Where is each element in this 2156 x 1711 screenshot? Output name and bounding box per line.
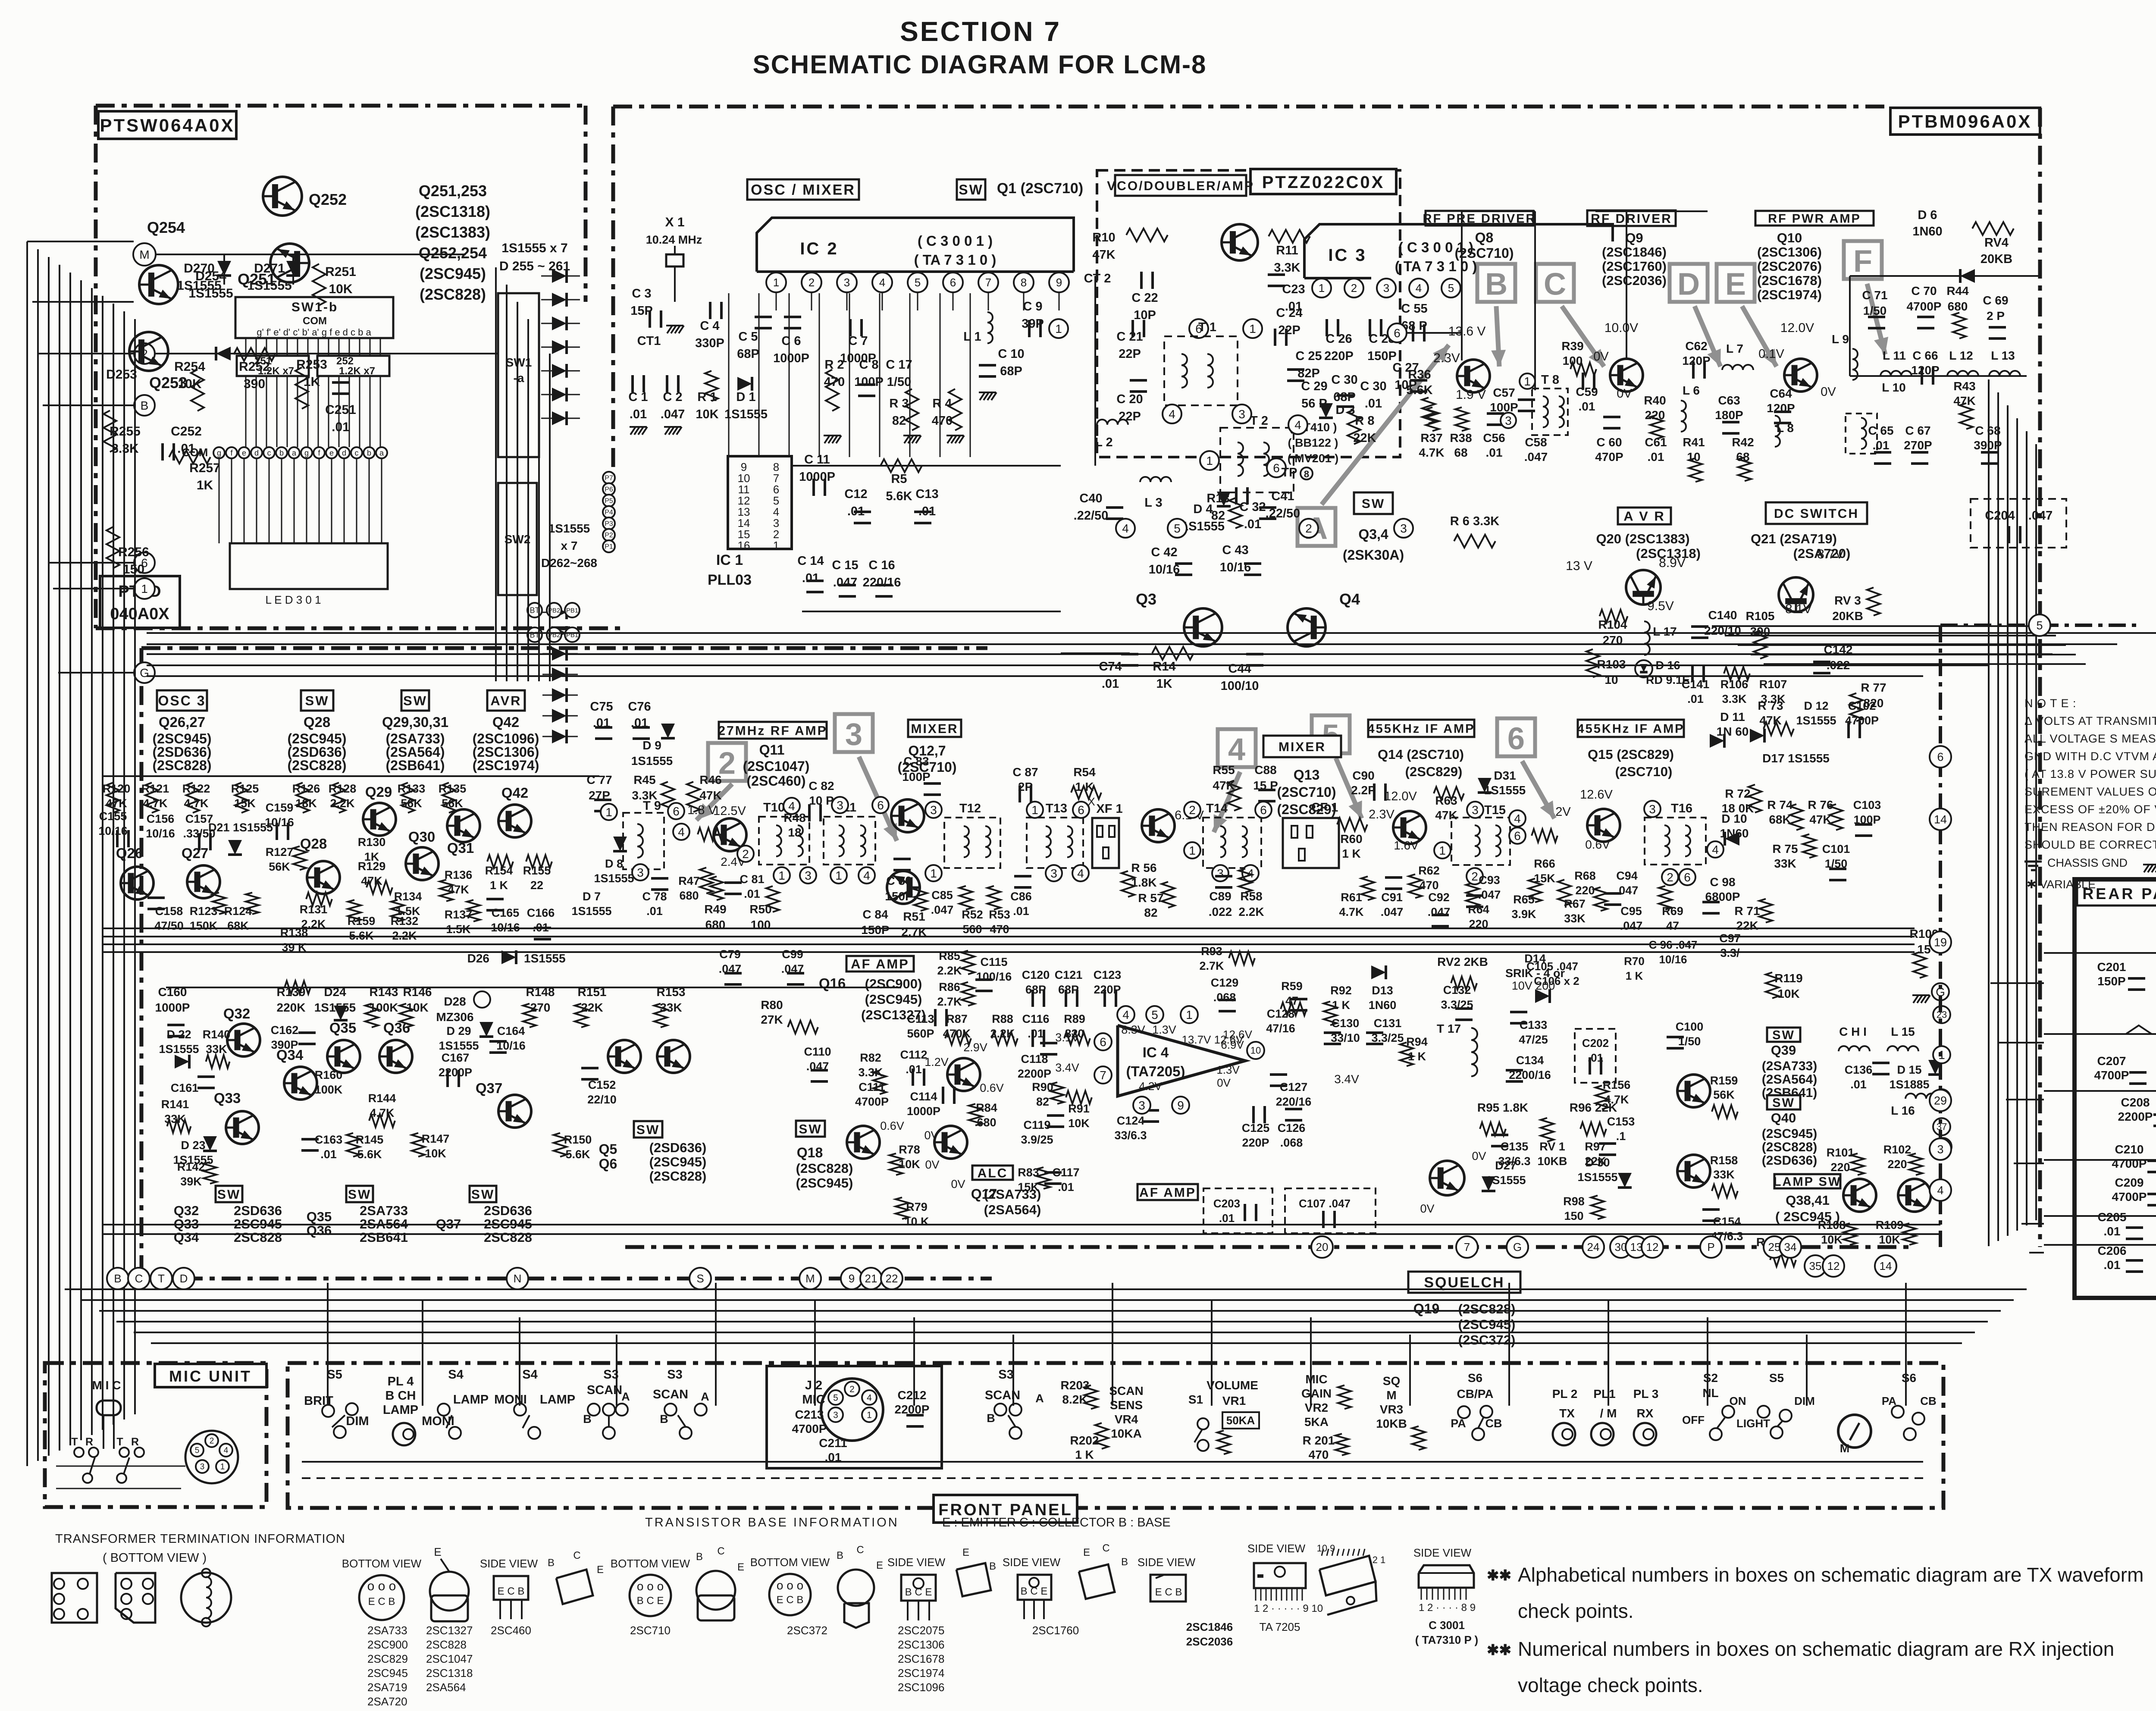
svg-text:C 66: C 66 bbox=[1912, 349, 1938, 362]
svg-text:( C 3 0 0 1 ): ( C 3 0 0 1 ) bbox=[918, 233, 993, 249]
svg-text:.01: .01 bbox=[1013, 905, 1029, 918]
svg-text:Q11: Q11 bbox=[759, 742, 785, 758]
svg-text:E: E bbox=[434, 1545, 441, 1558]
svg-text:R36: R36 bbox=[1408, 368, 1431, 382]
svg-text:5.6K: 5.6K bbox=[1406, 383, 1432, 397]
svg-text:T 8: T 8 bbox=[1541, 373, 1559, 387]
svg-text:e: e bbox=[242, 448, 246, 457]
transistor Q5 bbox=[608, 1040, 641, 1073]
svg-text:B C E: B C E bbox=[637, 1595, 664, 1607]
svg-text:R83: R83 bbox=[1018, 1166, 1039, 1179]
svg-text:C208: C208 bbox=[2121, 1096, 2150, 1109]
svg-text:R129: R129 bbox=[358, 860, 386, 873]
module border PTSW064A0X left bbox=[94, 106, 98, 628]
svg-text:E : EMITTER C : COLLECTOR: E : EMITTER C : COLLECTOR B : BASE bbox=[942, 1516, 1171, 1529]
svg-text:2SC460: 2SC460 bbox=[491, 1624, 531, 1637]
svg-text:Q10: Q10 bbox=[1777, 230, 1802, 245]
svg-text:C165: C165 bbox=[492, 906, 520, 919]
svg-text:D: D bbox=[1677, 267, 1700, 301]
svg-text:(2SC1974): (2SC1974) bbox=[473, 758, 539, 773]
svg-text:1000P: 1000P bbox=[907, 1105, 940, 1118]
transistor Q41 bbox=[1898, 1179, 1931, 1212]
mic switch pivots bbox=[83, 1473, 92, 1483]
svg-text:R40: R40 bbox=[1644, 394, 1666, 407]
svg-text:18K: 18K bbox=[295, 797, 317, 810]
transistor Q27 bbox=[187, 865, 220, 898]
svg-text:C 67: C 67 bbox=[1905, 424, 1930, 437]
svg-text:L 2: L 2 bbox=[1095, 436, 1112, 449]
svg-text:1N 60: 1N 60 bbox=[1717, 725, 1749, 738]
svg-text:47K: 47K bbox=[1759, 714, 1781, 727]
svg-text:G: G bbox=[1513, 1241, 1522, 1253]
svg-text:2: 2 bbox=[849, 1384, 855, 1394]
svg-text:2SD636: 2SD636 bbox=[484, 1203, 532, 1218]
IC1 box bbox=[728, 456, 792, 549]
svg-text:1.2K x7: 1.2K x7 bbox=[258, 365, 294, 377]
lamp PL2 bbox=[1553, 1423, 1575, 1445]
svg-text:S5: S5 bbox=[327, 1368, 342, 1382]
svg-text:D26: D26 bbox=[467, 952, 489, 965]
svg-text:R122: R122 bbox=[182, 782, 210, 795]
svg-text:SCHEMATIC DIAGRAM FOR LCM-8: SCHEMATIC DIAGRAM FOR LCM-8 bbox=[753, 50, 1207, 79]
svg-text:R158: R158 bbox=[1710, 1154, 1738, 1167]
svg-text:Q38,41: Q38,41 bbox=[1786, 1193, 1830, 1208]
svg-text:Q42: Q42 bbox=[501, 785, 528, 801]
svg-text:D31: D31 bbox=[1494, 769, 1516, 782]
svg-text:R 76: R 76 bbox=[1808, 798, 1833, 812]
legend transformer icon 2 bbox=[116, 1573, 155, 1623]
module label PTSW064A0X bbox=[98, 111, 236, 139]
svg-text:Q28: Q28 bbox=[304, 714, 330, 730]
svg-text:1S1555: 1S1555 bbox=[548, 522, 590, 535]
svg-text:check points.: check points. bbox=[1518, 1600, 1633, 1622]
svg-text:-a: -a bbox=[514, 371, 524, 385]
svg-text:COM: COM bbox=[303, 315, 327, 327]
svg-text:C131: C131 bbox=[1374, 1017, 1402, 1030]
svg-text:2.2K: 2.2K bbox=[330, 797, 355, 810]
svg-text:2SD636: 2SD636 bbox=[234, 1203, 282, 1218]
svg-text:RV 3: RV 3 bbox=[1834, 594, 1861, 607]
svg-text:R47: R47 bbox=[678, 874, 700, 887]
svg-text:C112: C112 bbox=[900, 1048, 927, 1061]
svg-text:1 K: 1 K bbox=[1075, 1448, 1094, 1461]
crystal filter XF1 bbox=[1092, 818, 1119, 868]
svg-text:ALC: ALC bbox=[978, 1166, 1008, 1180]
transistor Q31 bbox=[447, 809, 480, 842]
svg-text:1.3V: 1.3V bbox=[1152, 1023, 1176, 1036]
svg-text:470: 470 bbox=[1309, 1448, 1329, 1461]
svg-text:D13: D13 bbox=[1372, 984, 1393, 997]
transistor Q12a bbox=[891, 799, 924, 832]
svg-text:6: 6 bbox=[1078, 803, 1084, 817]
svg-text:0V: 0V bbox=[1821, 385, 1836, 399]
pin 6 T2 bbox=[1267, 458, 1286, 477]
IC2 body bbox=[757, 218, 1074, 272]
transistor Q42b bbox=[498, 805, 531, 837]
note chassis gnd symbol bbox=[2024, 861, 2042, 863]
svg-text:x 7: x 7 bbox=[561, 539, 578, 552]
block label VCO/DOUBLER/AMP bbox=[1115, 175, 1246, 196]
svg-text:1: 1 bbox=[1319, 282, 1325, 295]
diode array D255-261 bbox=[552, 269, 567, 283]
svg-text:o o o: o o o bbox=[777, 1579, 803, 1592]
svg-text:L 12: L 12 bbox=[1949, 349, 1973, 362]
svg-text:.01: .01 bbox=[1244, 517, 1261, 531]
svg-text:220/16: 220/16 bbox=[863, 576, 901, 589]
module border PTLD040A0X bottom bbox=[141, 646, 987, 650]
svg-text:100P: 100P bbox=[1490, 401, 1518, 414]
rear panel wires bbox=[2044, 952, 2156, 954]
capacitor C252 bbox=[161, 443, 164, 461]
svg-text:C 65: C 65 bbox=[1868, 424, 1893, 437]
svg-text:C76: C76 bbox=[628, 700, 651, 714]
diode D254 bbox=[216, 347, 231, 360]
mic symbol bbox=[97, 1401, 121, 1415]
svg-text:.01: .01 bbox=[802, 571, 819, 585]
connector pin 22 bottom bus bbox=[881, 1268, 903, 1289]
svg-text:680: 680 bbox=[705, 918, 726, 931]
resistor R256 bbox=[107, 527, 119, 568]
svg-text:R103: R103 bbox=[1597, 658, 1626, 671]
svg-text:S1: S1 bbox=[1188, 1393, 1203, 1406]
svg-text:56K: 56K bbox=[442, 797, 463, 810]
svg-text:B CH: B CH bbox=[385, 1389, 416, 1403]
svg-text:15K: 15K bbox=[1534, 872, 1555, 885]
svg-text:✱✱: ✱✱ bbox=[1487, 1567, 1511, 1584]
SW2 box bbox=[498, 483, 537, 595]
svg-text:8.7V: 8.7V bbox=[1817, 547, 1844, 561]
svg-text:1: 1 bbox=[835, 869, 842, 882]
svg-text:g: g bbox=[217, 448, 221, 457]
svg-text:3: 3 bbox=[1217, 867, 1224, 880]
svg-text:N O T E :: N O T E : bbox=[2024, 697, 2077, 710]
checkpoint E bbox=[1717, 264, 1755, 302]
svg-text:.01: .01 bbox=[1873, 439, 1890, 452]
svg-text:.01: .01 bbox=[1687, 693, 1704, 705]
svg-text:1: 1 bbox=[773, 539, 779, 552]
svg-text:R 75: R 75 bbox=[1772, 842, 1798, 855]
svg-text:Q29,30,31: Q29,30,31 bbox=[382, 714, 448, 730]
pin G bbox=[134, 662, 155, 683]
svg-text:B: B bbox=[660, 1413, 668, 1426]
svg-text:C 71: C 71 bbox=[1862, 288, 1887, 302]
svg-text:6: 6 bbox=[1100, 1035, 1106, 1049]
svg-text:1: 1 bbox=[1524, 375, 1531, 388]
svg-text:C136: C136 bbox=[1845, 1063, 1873, 1076]
svg-text:100: 100 bbox=[751, 918, 771, 931]
mid horizontal bus band above lower-left block bbox=[147, 632, 2156, 634]
note pcb gnd symbol bbox=[2144, 865, 2149, 872]
svg-text:8: 8 bbox=[1304, 469, 1309, 479]
switch S1 bbox=[1197, 1418, 1209, 1429]
svg-text:S4: S4 bbox=[522, 1368, 537, 1382]
svg-text:R95 1.8K: R95 1.8K bbox=[1477, 1101, 1528, 1114]
svg-text:R61: R61 bbox=[1341, 891, 1362, 904]
svg-text:SW: SW bbox=[217, 1188, 241, 1202]
svg-text:21: 21 bbox=[865, 1272, 877, 1285]
connector J2 MIC box bbox=[767, 1366, 942, 1468]
pin 3 vco bbox=[1394, 519, 1413, 538]
svg-text:OFF: OFF bbox=[1682, 1413, 1705, 1426]
svg-text:5: 5 bbox=[2036, 619, 2043, 632]
svg-text:50KA: 50KA bbox=[1226, 1414, 1255, 1427]
svg-text:68: 68 bbox=[1454, 446, 1467, 459]
module label PTBM096A0X bbox=[1890, 108, 2040, 135]
svg-text:68P: 68P bbox=[1000, 364, 1022, 378]
svg-text:4: 4 bbox=[224, 1446, 229, 1455]
svg-text:T 9: T 9 bbox=[643, 799, 661, 813]
svg-text:82: 82 bbox=[892, 414, 906, 428]
svg-text:47/25: 47/25 bbox=[1519, 1033, 1548, 1046]
svg-text:220P: 220P bbox=[1324, 349, 1354, 363]
svg-text:E: E bbox=[1725, 267, 1746, 301]
svg-text:C 6: C 6 bbox=[781, 334, 801, 348]
svg-text:BOTTOM VIEW: BOTTOM VIEW bbox=[611, 1557, 690, 1570]
pot VR2 bbox=[1338, 1385, 1351, 1409]
svg-text:18: 18 bbox=[788, 826, 801, 839]
connector pin D bottom bus bbox=[173, 1268, 194, 1289]
svg-text:( TA 7 3 1 0 ): ( TA 7 3 1 0 ) bbox=[914, 252, 997, 268]
svg-text:C 4: C 4 bbox=[700, 319, 719, 333]
svg-text:1.8 V: 1.8 V bbox=[687, 803, 717, 817]
transformer T10 box bbox=[759, 817, 809, 865]
svg-text:C 30: C 30 bbox=[1360, 379, 1386, 393]
svg-text:a: a bbox=[379, 448, 384, 457]
pin 9 ic4 bbox=[1172, 1097, 1189, 1114]
svg-text:4: 4 bbox=[1294, 418, 1301, 432]
svg-text:(2SC828): (2SC828) bbox=[796, 1161, 853, 1176]
svg-text:E C B: E C B bbox=[777, 1594, 804, 1606]
transformer T13 box bbox=[1027, 818, 1083, 868]
svg-text:TX: TX bbox=[1559, 1407, 1575, 1420]
svg-text:Q34: Q34 bbox=[174, 1230, 199, 1245]
svg-text:2SC1318: 2SC1318 bbox=[426, 1667, 473, 1680]
svg-text:Q35: Q35 bbox=[329, 1020, 356, 1036]
svg-text:5: 5 bbox=[1174, 522, 1181, 535]
svg-text:C124: C124 bbox=[1117, 1114, 1145, 1127]
svg-text:1: 1 bbox=[605, 805, 612, 819]
main module border left bbox=[611, 107, 615, 474]
svg-text:C85: C85 bbox=[931, 889, 953, 902]
svg-text:B: B bbox=[987, 1412, 995, 1425]
pin 3 T16 bbox=[1644, 801, 1661, 817]
pin 6 T16 bbox=[1679, 869, 1695, 885]
dashed box C203 bbox=[1203, 1188, 1272, 1233]
svg-text:R101: R101 bbox=[1827, 1146, 1855, 1159]
svg-text:9: 9 bbox=[849, 1272, 855, 1285]
svg-text:040A0X: 040A0X bbox=[110, 605, 169, 623]
svg-text:S4: S4 bbox=[448, 1368, 463, 1382]
transistor Q29 bbox=[363, 803, 396, 836]
svg-text:VOLUME: VOLUME bbox=[1206, 1379, 1258, 1392]
svg-text:PTSW064A0X: PTSW064A0X bbox=[100, 115, 235, 135]
pin 1 out bbox=[1933, 1046, 1950, 1063]
resistor R125 15K bbox=[235, 783, 248, 813]
switch S2 bbox=[1722, 1406, 1734, 1418]
svg-text:C158: C158 bbox=[155, 905, 183, 918]
pin 6 check bus bbox=[1930, 746, 1951, 768]
svg-text:Q20 (2SC1383): Q20 (2SC1383) bbox=[1596, 531, 1689, 546]
svg-text:C 43: C 43 bbox=[1222, 543, 1248, 557]
label REAR PANEL bbox=[2077, 881, 2156, 906]
svg-text:3: 3 bbox=[845, 717, 862, 752]
svg-text:2: 2 bbox=[210, 1437, 214, 1446]
svg-text:PL 2: PL 2 bbox=[1552, 1387, 1578, 1401]
svg-text:.01: .01 bbox=[1219, 1212, 1235, 1225]
svg-text:20KB: 20KB bbox=[1981, 252, 2012, 266]
svg-text:SW: SW bbox=[1362, 497, 1385, 511]
svg-text:7: 7 bbox=[1100, 1069, 1106, 1082]
svg-text:M I C: M I C bbox=[92, 1379, 121, 1392]
svg-text:C 81: C 81 bbox=[740, 873, 764, 886]
svg-text:L 16: L 16 bbox=[1891, 1104, 1915, 1117]
svg-text:6: 6 bbox=[950, 276, 956, 289]
svg-text:BOTTOM VIEW: BOTTOM VIEW bbox=[342, 1557, 422, 1570]
svg-text:1: 1 bbox=[1055, 322, 1062, 335]
svg-text:B: B bbox=[837, 1550, 843, 1561]
svg-text:S6: S6 bbox=[1468, 1371, 1482, 1385]
svg-text:IC 2: IC 2 bbox=[800, 239, 838, 258]
legend icon can 2 bbox=[696, 1571, 735, 1610]
svg-text:X: X bbox=[1087, 795, 1095, 808]
svg-text:SUREMENT VALUES OBTAINED AR: SUREMENT VALUES OBTAINED ARE IN bbox=[2024, 785, 2156, 798]
svg-text:1: 1 bbox=[1189, 844, 1196, 857]
svg-text:R66: R66 bbox=[1534, 857, 1555, 870]
svg-text:4: 4 bbox=[1514, 812, 1521, 825]
svg-text:1S1555: 1S1555 bbox=[631, 754, 673, 768]
svg-text:10K: 10K bbox=[406, 1001, 428, 1014]
svg-text:5.6K: 5.6K bbox=[565, 1148, 590, 1161]
svg-text:R151: R151 bbox=[578, 985, 607, 999]
svg-text:R104: R104 bbox=[1598, 618, 1627, 631]
svg-text:C201: C201 bbox=[2097, 960, 2126, 974]
transistor Q34 bbox=[284, 1067, 317, 1100]
switch S3a bbox=[588, 1404, 600, 1416]
svg-text:2SA564: 2SA564 bbox=[426, 1681, 466, 1694]
switch S4a bbox=[438, 1404, 450, 1416]
PTZZ022C0X module border bbox=[1097, 170, 1400, 457]
svg-text:4.2V: 4.2V bbox=[1139, 1080, 1162, 1093]
svg-text:.047: .047 bbox=[1620, 919, 1643, 932]
svg-text:Q16: Q16 bbox=[819, 975, 846, 991]
mic switch contacts bbox=[74, 1448, 84, 1457]
svg-text:2: 2 bbox=[1305, 522, 1312, 535]
svg-text:N: N bbox=[514, 1272, 522, 1285]
svg-text:T15: T15 bbox=[1484, 803, 1506, 817]
svg-text:1.6V: 1.6V bbox=[1394, 839, 1419, 852]
svg-text:4: 4 bbox=[1122, 522, 1129, 535]
bus band above bottom bus bbox=[65, 1288, 2027, 1290]
svg-text:2SC1760: 2SC1760 bbox=[1032, 1624, 1079, 1637]
svg-text:C 78: C 78 bbox=[642, 890, 667, 903]
wires pll-q3q4 bbox=[1061, 652, 1130, 654]
block label RF PRE DRIVER bbox=[1426, 211, 1533, 226]
svg-text:SCAN: SCAN bbox=[587, 1383, 622, 1397]
svg-text:Numerical numbers in boxes on: Numerical numbers in boxes on schematic … bbox=[1518, 1638, 2114, 1660]
svg-text:0.6V: 0.6V bbox=[1585, 838, 1610, 851]
bus line switch block bbox=[166, 987, 901, 988]
svg-text:C 9: C 9 bbox=[1023, 300, 1042, 313]
transistor Q21 bbox=[1779, 577, 1813, 612]
pin 40 bbox=[1934, 1138, 1952, 1155]
svg-text:120P: 120P bbox=[1682, 354, 1710, 367]
svg-text:SECTION 7: SECTION 7 bbox=[900, 16, 1061, 47]
pin 4 T15 bbox=[1509, 810, 1526, 827]
pin 29 check bus bbox=[1930, 1090, 1951, 1111]
svg-text:5: 5 bbox=[833, 1393, 838, 1403]
svg-text:D: D bbox=[180, 1272, 188, 1285]
svg-text:4700P: 4700P bbox=[1845, 714, 1879, 727]
svg-text:R 201: R 201 bbox=[1303, 1434, 1335, 1447]
svg-text:( TA7310 P ): ( TA7310 P ) bbox=[1415, 1633, 1478, 1646]
svg-text:Q13: Q13 bbox=[1294, 767, 1319, 783]
svg-text:PB1: PB1 bbox=[566, 607, 578, 614]
svg-text:R87: R87 bbox=[946, 1012, 968, 1025]
svg-text:4: 4 bbox=[1122, 1008, 1129, 1022]
transistor Q16 bbox=[947, 1058, 980, 1091]
svg-text:C 84: C 84 bbox=[862, 908, 888, 921]
svg-text:C107 .047: C107 .047 bbox=[1299, 1197, 1351, 1210]
svg-text:2SC2075: 2SC2075 bbox=[898, 1624, 944, 1637]
main module bottom bus dash-dot left bbox=[108, 1277, 992, 1281]
connector pin 12 lamp area bbox=[1823, 1255, 1844, 1277]
checkpoint B bbox=[1477, 264, 1515, 302]
svg-text:22/10: 22/10 bbox=[587, 1093, 617, 1106]
svg-text:(2SC1383): (2SC1383) bbox=[415, 223, 490, 241]
svg-text:R 77: R 77 bbox=[1861, 681, 1886, 694]
svg-text:o o o: o o o bbox=[367, 1579, 396, 1593]
svg-text:150: 150 bbox=[1564, 1210, 1583, 1222]
svg-text:4700P: 4700P bbox=[2094, 1069, 2129, 1082]
svg-text:.01: .01 bbox=[646, 905, 663, 918]
svg-text:Q6: Q6 bbox=[599, 1156, 617, 1172]
pin 5 check bus bbox=[2029, 614, 2050, 636]
svg-text:C111: C111 bbox=[859, 1081, 885, 1094]
svg-text:C89: C89 bbox=[1209, 890, 1231, 903]
svg-text:2SC1383: 2SC1383 bbox=[367, 1709, 414, 1711]
svg-text:10/16: 10/16 bbox=[265, 816, 294, 829]
svg-text:C121: C121 bbox=[1055, 968, 1083, 981]
connector pin P bottom bus right bbox=[1700, 1236, 1722, 1258]
svg-text:R148: R148 bbox=[526, 985, 555, 999]
transistor Q10 bbox=[1784, 359, 1817, 392]
pin 4 ic4 bbox=[1117, 1006, 1134, 1023]
svg-text:C202: C202 bbox=[1582, 1037, 1609, 1050]
svg-text:A: A bbox=[701, 1390, 709, 1403]
resistor R252 bbox=[234, 348, 275, 361]
svg-text:1S1555: 1S1555 bbox=[188, 286, 233, 301]
svg-text:1K: 1K bbox=[197, 478, 213, 492]
svg-text:.01: .01 bbox=[1028, 1027, 1044, 1040]
svg-text:100/10: 100/10 bbox=[1221, 679, 1259, 693]
svg-text:Q251: Q251 bbox=[238, 270, 276, 288]
svg-text:(2SC945): (2SC945) bbox=[796, 1175, 853, 1191]
svg-text:22: 22 bbox=[886, 1272, 898, 1285]
svg-text:3: 3 bbox=[1472, 803, 1479, 817]
connector pin 24 bottom bus right bbox=[1583, 1236, 1604, 1258]
svg-text:C 20: C 20 bbox=[1116, 392, 1143, 406]
svg-text:1000P: 1000P bbox=[773, 351, 809, 365]
svg-text:0.6V: 0.6V bbox=[980, 1081, 1004, 1094]
svg-text:35: 35 bbox=[1809, 1260, 1822, 1272]
resistor R133 56K bbox=[401, 783, 414, 813]
svg-text:IC 1: IC 1 bbox=[716, 552, 743, 568]
svg-text:R105: R105 bbox=[1746, 609, 1775, 623]
svg-text:C93: C93 bbox=[1479, 874, 1500, 887]
svg-text:C 55: C 55 bbox=[1401, 302, 1427, 316]
svg-text:SW1-b: SW1-b bbox=[291, 300, 338, 314]
svg-text:T 2: T 2 bbox=[1250, 414, 1268, 428]
